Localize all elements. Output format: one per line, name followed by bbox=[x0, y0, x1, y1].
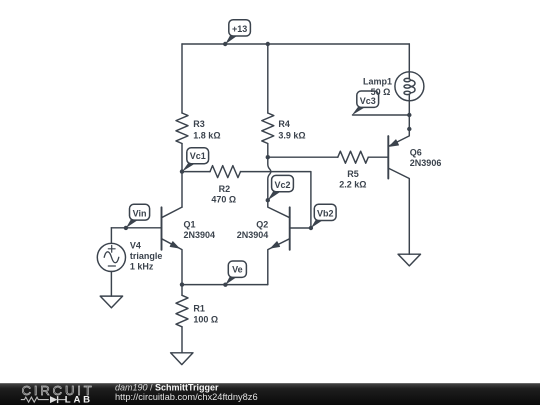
ground (R1) bbox=[171, 353, 193, 365]
svg-text:R3: R3 bbox=[193, 119, 205, 129]
svg-text:50 Ω: 50 Ω bbox=[371, 87, 391, 97]
node dot Ve bbox=[223, 283, 227, 287]
wire node Vc3 pointer rail bbox=[353, 114, 410, 116]
node label Vc2 bbox=[268, 175, 294, 200]
svg-text:100 Ω: 100 Ω bbox=[193, 314, 218, 324]
node flag labels bbox=[126, 20, 379, 285]
svg-text:2.2 kΩ: 2.2 kΩ bbox=[339, 179, 366, 189]
svg-text:Lamp1: Lamp1 bbox=[363, 77, 392, 87]
wire R5 to Q6 base bbox=[368, 156, 388, 158]
node label Vin bbox=[126, 204, 150, 228]
resistor R5 bbox=[338, 151, 368, 163]
logo resistor squiggle bbox=[21, 397, 49, 402]
node dot Vb2 bbox=[309, 226, 313, 230]
source V4 bbox=[97, 228, 125, 296]
ground (V4) bbox=[100, 296, 122, 308]
logo LAB text bbox=[65, 394, 93, 405]
node dot Vc3 rail junction bbox=[407, 113, 411, 117]
resistor R4 bbox=[262, 113, 274, 144]
node dot Q6 emitter bbox=[407, 127, 411, 131]
label Q2 value bbox=[237, 220, 269, 240]
svg-text:R2: R2 bbox=[219, 184, 231, 194]
wire top rail from left branch to right branch bbox=[182, 43, 409, 45]
svg-text:Vc2: Vc2 bbox=[274, 180, 290, 190]
svg-text:Vin: Vin bbox=[133, 209, 147, 219]
footer url line 2 bbox=[115, 392, 258, 402]
footer bar bbox=[0, 383, 540, 405]
resistor R3 bbox=[176, 113, 188, 144]
power label +13 bbox=[225, 20, 250, 45]
transistor Q6 bbox=[388, 129, 409, 254]
wire R2 right to Vb2 drop bbox=[241, 172, 311, 228]
wire R5 row from R4 node bbox=[268, 156, 338, 158]
svg-text:2N3904: 2N3904 bbox=[237, 230, 269, 240]
label R1 value bbox=[193, 304, 218, 325]
wire R1 bottom to ground bbox=[181, 327, 183, 353]
node dot top rail / R4 branch bbox=[266, 42, 270, 46]
wire R4 node down to Vc2 with hop over R2 wire bbox=[268, 157, 271, 200]
wire Q1 base to V4 bbox=[111, 227, 161, 229]
wire right column: top rail to lamp bbox=[408, 44, 410, 72]
svg-text:Q1: Q1 bbox=[184, 220, 196, 230]
svg-text:Vc3: Vc3 bbox=[360, 96, 376, 106]
logo diode bbox=[50, 396, 67, 403]
svg-text:V4: V4 bbox=[130, 241, 141, 251]
svg-text:Q2: Q2 bbox=[256, 220, 268, 230]
svg-text:470 Ω: 470 Ω bbox=[211, 194, 236, 204]
component value texts bbox=[130, 77, 441, 325]
label R5 value bbox=[339, 169, 366, 189]
svg-text:R5: R5 bbox=[347, 169, 359, 179]
svg-text:2N3904: 2N3904 bbox=[184, 230, 216, 240]
resistor R2 bbox=[210, 166, 241, 178]
wire R3 bottom to Q1 collector (through node Vc1) bbox=[181, 144, 183, 208]
svg-text:Q6: Q6 bbox=[410, 148, 422, 158]
resistor R1 bbox=[176, 295, 188, 327]
transistor Q1 bbox=[162, 207, 183, 285]
footer credit line 1 bbox=[115, 383, 219, 393]
label V4 value bbox=[130, 241, 163, 272]
wire R4 bottom to node at R5 branch bbox=[267, 144, 269, 158]
node dot emitter rail / R1 bbox=[180, 282, 184, 286]
transistor Q2 bbox=[268, 200, 311, 284]
node label Vc1 bbox=[182, 148, 209, 172]
svg-text:+13: +13 bbox=[232, 24, 247, 34]
wire R2 row: Vc1 to zigzag bbox=[182, 171, 210, 173]
wire left column: top rail to R3 bbox=[181, 44, 183, 113]
svg-text:LAB: LAB bbox=[65, 394, 93, 405]
node dot R4/R5 branch bbox=[266, 155, 270, 159]
node dot +13 tap bbox=[223, 42, 227, 46]
label R2 value bbox=[211, 184, 236, 204]
svg-text:1 kHz: 1 kHz bbox=[130, 262, 154, 272]
svg-text:3.9 kΩ: 3.9 kΩ bbox=[278, 131, 305, 141]
svg-text:R1: R1 bbox=[193, 304, 205, 314]
svg-text:Vc1: Vc1 bbox=[190, 151, 206, 161]
wire emitter rail Ve bbox=[182, 284, 268, 286]
wire lamp bottom to Q6 emitter bbox=[408, 101, 410, 129]
label Lamp1 value bbox=[363, 77, 392, 98]
node dot Vc1 bbox=[180, 169, 184, 173]
label R4 value bbox=[278, 119, 305, 141]
label Q6 value bbox=[410, 148, 442, 169]
svg-text:R4: R4 bbox=[278, 119, 290, 129]
lamp Lamp1 bbox=[395, 72, 424, 101]
node label Vb2 bbox=[311, 204, 336, 228]
node dot Vc2 bbox=[266, 198, 270, 202]
wire top rail branch to R4 bbox=[267, 44, 269, 113]
wire R1 top bbox=[181, 285, 183, 296]
node label Ve bbox=[225, 261, 246, 285]
logo CIRCUIT outline text bbox=[22, 383, 95, 398]
node label Vc3 bbox=[352, 91, 379, 115]
svg-text:triangle: triangle bbox=[130, 251, 163, 261]
svg-text:http://circuitlab.com/chx24ftd: http://circuitlab.com/chx24ftdny8z6 bbox=[115, 392, 258, 402]
node dot Vin bbox=[124, 226, 128, 230]
svg-text:2N3906: 2N3906 bbox=[410, 158, 442, 168]
label Q1 value bbox=[184, 220, 216, 240]
label R3 value bbox=[193, 119, 220, 141]
svg-text:Ve: Ve bbox=[232, 264, 243, 274]
svg-text:Vb2: Vb2 bbox=[317, 209, 334, 219]
ground (Q6 collector) bbox=[398, 254, 420, 266]
svg-text:1.8 kΩ: 1.8 kΩ bbox=[193, 131, 220, 141]
